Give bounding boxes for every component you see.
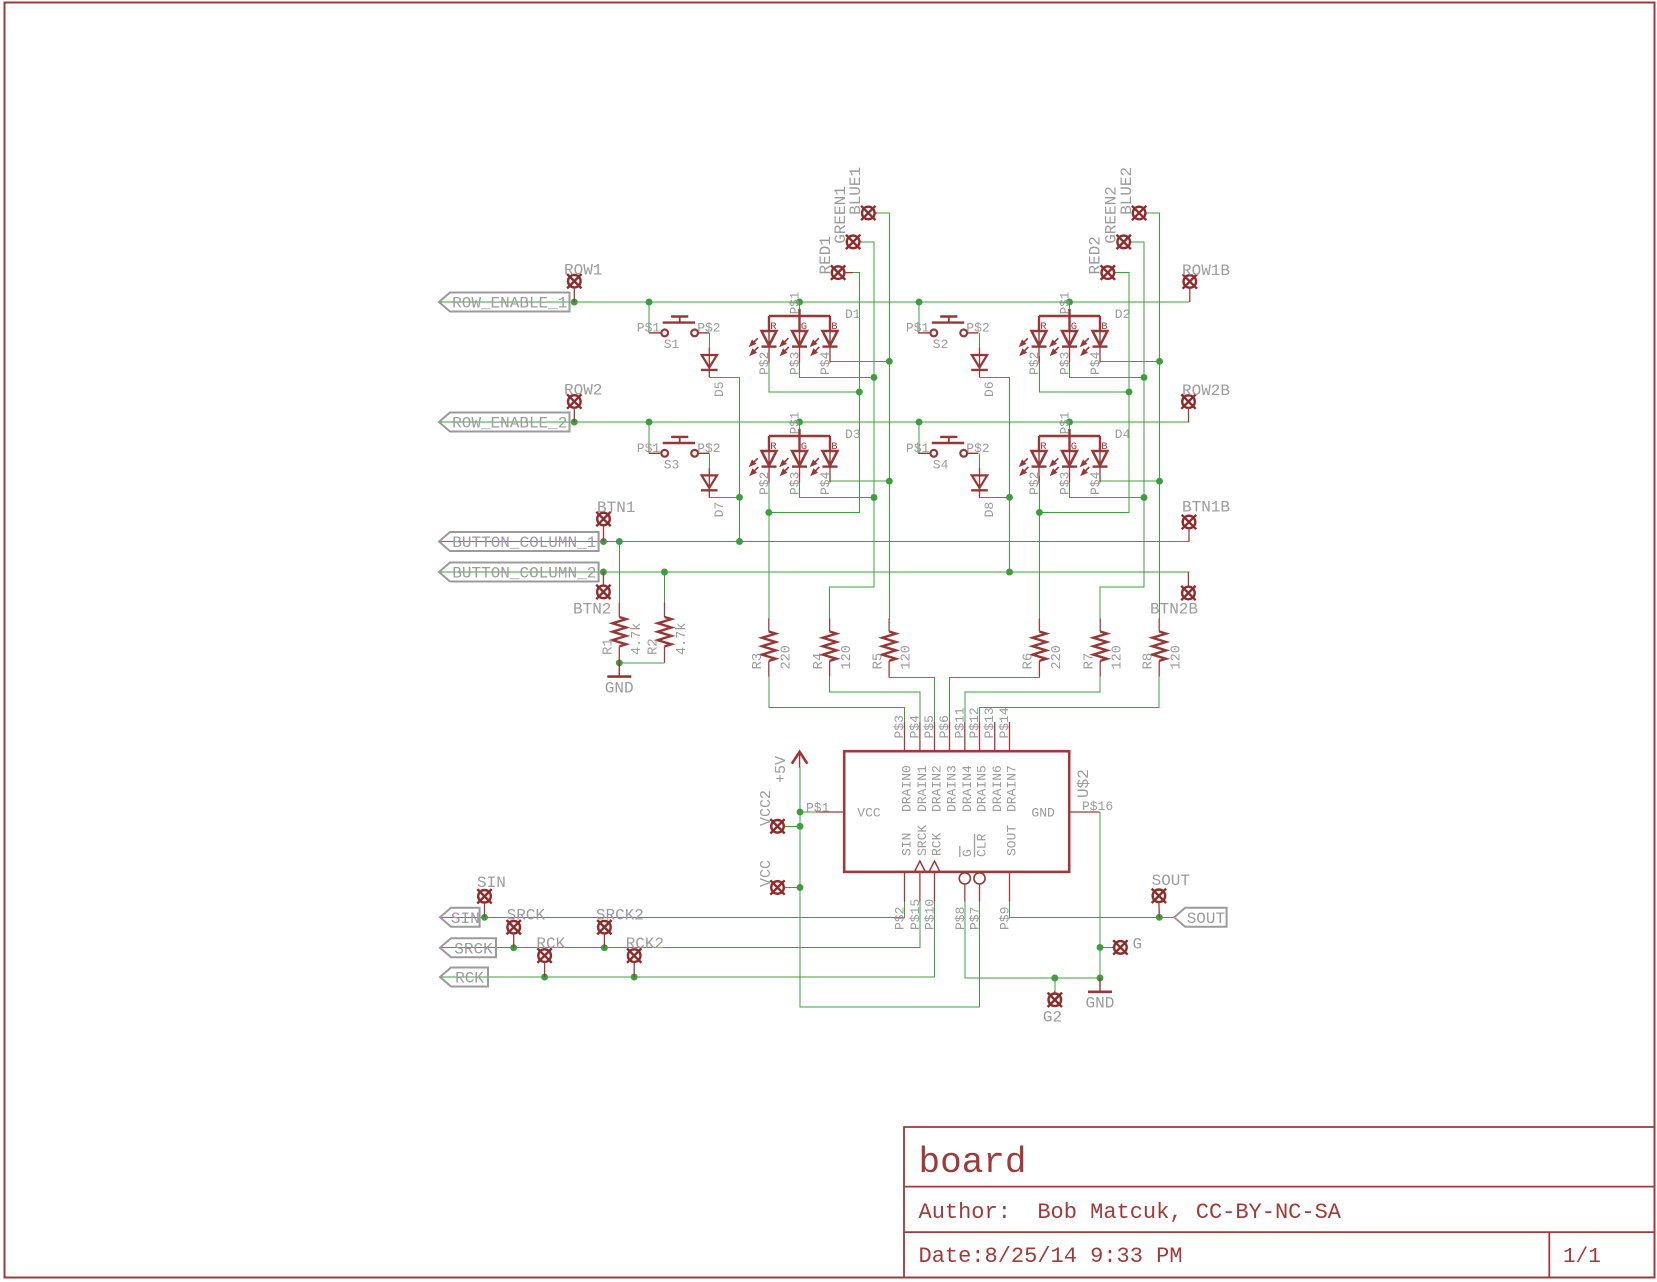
svg-text:ROW1B: ROW1B (1182, 262, 1230, 280)
svg-text:VCC: VCC (758, 860, 775, 887)
svg-text:U$2: U$2 (1075, 769, 1093, 798)
wire stub SRCK (513, 934, 515, 948)
junction D2/RE1 (1066, 299, 1073, 306)
svg-text:ROW1: ROW1 (564, 262, 602, 280)
svg-text:ROW_ENABLE_2: ROW_ENABLE_2 (452, 415, 567, 433)
junction RCK2 pad (631, 974, 638, 981)
svg-text:S3: S3 (664, 458, 680, 473)
svg-text:D3: D3 (845, 427, 861, 442)
svg-text:1/1: 1/1 (1563, 1246, 1601, 1269)
svg-text:P$1: P$1 (789, 412, 803, 435)
junction RED2/D2R (1126, 388, 1133, 395)
wire stub R6 top lead (1038, 618, 1040, 631)
pad G2 (1048, 993, 1062, 1007)
svg-text:P$2: P$2 (757, 472, 772, 495)
svg-text:G: G (960, 849, 975, 857)
svg-text:R3: R3 (750, 653, 766, 670)
pin P$6 (DRAIN3) (949, 722, 951, 751)
wire net BUTTON_COLUMN_2 (439, 571, 1189, 573)
wire stub RED2 (1114, 272, 1116, 274)
svg-text:Author: Bob Matcuk, CC-BY-NC-: Author: Bob Matcuk, CC-BY-NC-SA (919, 1200, 1342, 1225)
junction RED1/R3col (765, 509, 772, 516)
wire stub ROW1B (1189, 288, 1191, 302)
pad SRCK (507, 920, 521, 934)
LED R (762, 316, 777, 363)
svg-text:D1: D1 (845, 307, 861, 322)
RGB LED package D1 (769, 309, 830, 316)
svg-text:120: 120 (840, 645, 855, 669)
junction S2/RE1 (916, 299, 923, 306)
wire R8 to P$12 (980, 677, 1160, 722)
pin P$2 (SIN) (904, 872, 906, 902)
IC U$2 TPIC6B595 (844, 751, 1069, 872)
wire stub BTN1B (1188, 528, 1190, 541)
wire R3 to P$3 (769, 677, 905, 722)
ground symbol GND left (607, 663, 631, 677)
svg-text:D7: D7 (712, 502, 727, 518)
pad BTN1B (1182, 515, 1196, 529)
pin P$9 (SOUT) (1009, 872, 1011, 902)
net flag ROW_ENABLE_2 (439, 413, 570, 433)
svg-text:P$2: P$2 (1027, 352, 1042, 375)
svg-text:B: B (831, 321, 837, 333)
wire stub R8 top lead (1158, 618, 1160, 631)
svg-text:ROW_ENABLE_1: ROW_ENABLE_1 (452, 295, 567, 313)
pin P$5 (DRAIN2) (934, 722, 936, 751)
junction BLUE1/D1B (886, 358, 893, 365)
wire stub R6 bottom lead (1038, 661, 1040, 677)
junction ROW1/RE1 (571, 299, 578, 306)
svg-text:4.7k: 4.7k (675, 623, 690, 655)
wire net BLUE1 vertical to R5 (877, 213, 889, 618)
svg-text:G: G (801, 441, 807, 453)
svg-text:R: R (770, 321, 777, 333)
pad RCK2 (627, 948, 641, 962)
svg-text:B: B (1101, 441, 1107, 453)
svg-text:P$3: P$3 (1058, 352, 1073, 375)
junction R1/BC1 (616, 538, 623, 545)
svg-text:R: R (770, 441, 777, 453)
svg-text:VCC2: VCC2 (758, 790, 775, 826)
wire net ROW_ENABLE_1 (439, 301, 1190, 303)
LED B (823, 436, 838, 483)
svg-text:P$1: P$1 (806, 801, 830, 816)
ground symbol GND right (1088, 978, 1112, 992)
wire S4 branch (918, 422, 920, 453)
resistor R7 (1093, 632, 1107, 661)
wire S1 branch (648, 302, 650, 333)
svg-text:P$12: P$12 (967, 707, 982, 738)
junction RED2/R6col (1036, 509, 1043, 516)
RGB LED package D4 (1039, 429, 1100, 436)
resistor R5 (882, 632, 896, 661)
svg-text:P$8: P$8 (953, 907, 968, 930)
junction GREEN2/D4G (1141, 494, 1148, 501)
wire net RED2 vertical (1039, 273, 1129, 513)
junction SIN pad (481, 914, 488, 921)
svg-text:B: B (831, 441, 837, 453)
svg-text:220: 220 (1050, 645, 1065, 669)
pad VCC2 (770, 819, 784, 833)
resistor R2 (658, 617, 672, 646)
svg-text:P$2: P$2 (966, 320, 989, 335)
svg-text:G: G (1133, 936, 1143, 954)
switch S1 (649, 317, 709, 337)
wire D4 blue cathode (1100, 477, 1160, 482)
LED G (792, 436, 807, 483)
resistor R8 (1152, 632, 1166, 661)
wire S2 to D6 (979, 333, 981, 348)
svg-text:SRCK: SRCK (915, 825, 930, 856)
junction R2/BC2 (661, 569, 668, 576)
wire D1 red cathode (769, 356, 859, 392)
LED B (1093, 436, 1108, 483)
wire stub R8 bottom lead (1158, 661, 1160, 677)
wire D4 red cathode to R6 (1038, 477, 1040, 619)
svg-text:SOUT: SOUT (1005, 825, 1020, 856)
wire G pad wire (1100, 946, 1112, 948)
wire net VCC / CLR (800, 768, 980, 1008)
junction D8 out (1006, 494, 1013, 501)
diode D7 (701, 468, 718, 498)
LED R (762, 436, 777, 483)
svg-text:P$14: P$14 (997, 707, 1012, 738)
wire D1 blue cathode (830, 356, 889, 361)
junction BTN2/BC2 (600, 569, 607, 576)
wire stub R2 bottom lead (664, 646, 666, 662)
wire stub RED1 (844, 272, 853, 274)
switch S2 (918, 317, 978, 337)
wire BUTTON_COLUMN_2 to R2 (664, 572, 666, 603)
pad GREEN1 (846, 235, 860, 249)
svg-text:GND: GND (1031, 806, 1055, 821)
wire stub R2 top lead (664, 603, 666, 618)
wire stub R5 bottom lead (888, 661, 890, 677)
wire stub R4 top lead (829, 618, 831, 631)
svg-text:P$6: P$6 (937, 715, 952, 738)
wire D3 green cathode (800, 477, 875, 498)
resistor R4 (823, 632, 837, 661)
junction VCC (797, 884, 804, 891)
wire S3 branch (648, 422, 650, 453)
wire stub ROW1 (573, 288, 575, 303)
junction D7 out (736, 494, 743, 501)
pad BLUE1 (861, 206, 875, 220)
svg-text:R5: R5 (870, 653, 886, 670)
wire stub GREEN1 (859, 241, 861, 243)
wire stub BTN1 (603, 525, 605, 541)
svg-text:4.7k: 4.7k (630, 623, 645, 655)
wire S3 to D7 (708, 453, 710, 468)
junction P$1/VCC (797, 809, 804, 816)
svg-text:220: 220 (779, 645, 794, 669)
pad RED1 (831, 265, 845, 279)
svg-text:P$13: P$13 (982, 707, 997, 738)
junction D3/RE2 (796, 419, 803, 426)
wire stub R1 top lead (618, 603, 620, 618)
wire stub R1 bottom lead (618, 646, 620, 662)
junction S1/RE1 (646, 299, 653, 306)
wire stub SOUT (1158, 902, 1160, 917)
svg-text:RCK: RCK (455, 970, 484, 988)
wire D2 anode branch (1069, 302, 1071, 310)
svg-text:G: G (1071, 441, 1077, 453)
pad BTN1 (596, 512, 610, 526)
wire net GREEN1 vertical to R4 (830, 242, 874, 618)
wire stub SRCK2 (603, 934, 605, 948)
wire R6 to P$6 (950, 677, 1040, 722)
wire stub VCC2 (784, 825, 785, 827)
svg-text:S4: S4 (933, 458, 949, 473)
wire stub R7 bottom lead (1099, 661, 1101, 677)
pin P$14 (DRAIN7) (1009, 722, 1011, 751)
LED R (1032, 316, 1047, 363)
junction RCK pad (541, 974, 548, 981)
wire S4 to D8 (979, 453, 981, 468)
net flag BUTTON_COLUMN_1 (439, 532, 599, 552)
svg-text:R8: R8 (1140, 653, 1156, 670)
svg-text:P$2: P$2 (697, 320, 720, 335)
svg-text:P$4: P$4 (1088, 351, 1103, 375)
svg-text:+5V: +5V (773, 756, 790, 783)
wire net GREEN2 vertical to R7 (1100, 242, 1144, 618)
svg-text:P$7: P$7 (968, 907, 983, 930)
wire S2 branch (918, 302, 920, 333)
wire stub ROW2 (573, 408, 575, 422)
LED B (1093, 316, 1108, 363)
junction BTN1/BC1 (600, 538, 607, 545)
wire stub GREEN2 (1130, 241, 1132, 243)
svg-text:120: 120 (900, 645, 915, 669)
svg-text:SOUT: SOUT (1187, 910, 1225, 928)
svg-text:D5: D5 (712, 381, 727, 397)
svg-text:SOUT: SOUT (1152, 872, 1190, 890)
svg-text:DRAIN0: DRAIN0 (900, 765, 915, 812)
junction S3/RE2 (646, 419, 653, 426)
wire D3 red cathode to R3 (768, 477, 770, 619)
svg-text:board: board (919, 1142, 1027, 1183)
wire D1 green cathode (800, 356, 875, 377)
svg-text:G: G (1071, 321, 1077, 333)
diode D8 (971, 468, 988, 498)
svg-text:P$2: P$2 (893, 907, 908, 930)
svg-text:P$3: P$3 (788, 352, 803, 375)
wire net RCK (440, 902, 935, 977)
pad VCC (770, 880, 784, 894)
resistor R3 (762, 632, 776, 661)
svg-text:R7: R7 (1081, 653, 1097, 670)
svg-text:RCK: RCK (536, 935, 565, 953)
junction GND node (1097, 975, 1104, 982)
wire stub R7 top lead (1099, 618, 1101, 631)
wire S1 to D5 (708, 333, 710, 348)
pad ROW2 (567, 394, 581, 408)
pad RED2 (1101, 265, 1115, 279)
svg-text:DRAIN7: DRAIN7 (1005, 765, 1020, 812)
wire BUTTON_COLUMN_1 to R1 (618, 542, 620, 603)
wire net RED1 vertical (769, 273, 860, 513)
svg-text:P$3: P$3 (1058, 472, 1073, 495)
svg-text:P$11: P$11 (952, 707, 967, 738)
svg-text:Date:8/25/14 9:33 PM: Date:8/25/14 9:33 PM (919, 1244, 1183, 1269)
svg-text:R1: R1 (601, 638, 617, 655)
LED G (792, 316, 807, 363)
junction SRCK pad (510, 944, 517, 951)
svg-text:RCK2: RCK2 (626, 935, 664, 953)
pad SRCK2 (597, 920, 611, 934)
junction GREEN1/D1G (871, 374, 878, 381)
switch S3 (649, 437, 709, 457)
junction SOUT pad (1156, 914, 1163, 921)
svg-text:P$1: P$1 (789, 292, 803, 315)
svg-text:120: 120 (1170, 645, 1185, 669)
svg-text:SIN: SIN (477, 874, 506, 892)
wire stub RCK2 (633, 962, 635, 977)
wire D7 out (709, 496, 739, 498)
svg-text:P$2: P$2 (697, 441, 720, 456)
svg-text:GND: GND (605, 679, 634, 697)
svg-text:DRAIN3: DRAIN3 (945, 765, 960, 812)
junction BLUE2/D4B (1156, 478, 1163, 485)
net flag RCK (440, 968, 488, 988)
wire net BLUE2 vertical to R8 (1147, 213, 1159, 618)
pin P$11 (DRAIN4) (964, 722, 966, 751)
svg-text:S2: S2 (933, 337, 949, 352)
wire net BUTTON_COLUMN_1 (439, 541, 1190, 543)
svg-text:P$10: P$10 (923, 899, 938, 930)
svg-text:R2: R2 (646, 638, 662, 655)
svg-text:SIN: SIN (900, 833, 915, 856)
wire net SRCK (440, 902, 920, 948)
svg-text:S1: S1 (664, 337, 680, 352)
title block (904, 1127, 1655, 1278)
svg-text:SRCK: SRCK (507, 907, 546, 925)
svg-text:P$1: P$1 (637, 441, 661, 456)
junction BLUE1/D3B (886, 478, 893, 485)
junction GREEN1/D3G (871, 494, 878, 501)
+5V supply symbol (792, 752, 808, 768)
wire R5 to P$5 (889, 677, 934, 722)
wire D2 green cathode (1070, 356, 1144, 377)
junction D1/RE1 (796, 299, 803, 306)
svg-text:D2: D2 (1115, 307, 1131, 322)
wire D5 out to BUTTON_COLUMN_1 (709, 377, 739, 541)
svg-text:P$1: P$1 (637, 320, 661, 335)
svg-text:DRAIN6: DRAIN6 (990, 765, 1005, 812)
wire stub RCK (544, 962, 546, 977)
svg-text:P$2: P$2 (1027, 472, 1042, 495)
wire R7 to P$11 (965, 677, 1100, 722)
wire stub SIN (484, 903, 486, 918)
wire D2 blue cathode (1100, 356, 1160, 361)
wire G2 stem wire (1054, 978, 1056, 991)
junction BLUE2/D2B (1156, 358, 1163, 365)
switch S4 (918, 437, 978, 457)
svg-text:D4: D4 (1115, 427, 1131, 442)
wire stub ROW2B (1188, 408, 1190, 422)
pin P$13 (DRAIN6) (994, 722, 996, 751)
junction ROW2/RE2 (571, 419, 578, 426)
svg-text:P$1: P$1 (1059, 292, 1073, 315)
wire G pin to GND (965, 902, 1100, 978)
svg-text:P$4: P$4 (1088, 471, 1103, 495)
wire D3 blue cathode (830, 477, 889, 482)
svg-text:SRCK: SRCK (454, 940, 493, 958)
svg-text:P$1: P$1 (906, 320, 930, 335)
pad RCK (537, 948, 551, 962)
RGB LED package D3 (769, 429, 830, 436)
svg-text:P$3: P$3 (788, 472, 803, 495)
wire D2 red cathode (1039, 356, 1129, 392)
wire stub R5 top lead (888, 618, 890, 631)
junction D5D7/BC1 (736, 538, 743, 545)
wire VCC2 pad stub wire (785, 825, 800, 827)
svg-text:P$5: P$5 (922, 715, 937, 738)
wire D1 anode branch (799, 302, 801, 310)
svg-text:DRAIN1: DRAIN1 (915, 765, 930, 812)
wire stub R4 bottom lead (829, 661, 831, 677)
svg-text:P$2: P$2 (966, 441, 989, 456)
pad BLUE2 (1132, 206, 1146, 220)
wire R4 to P$4 (830, 677, 920, 722)
svg-text:D6: D6 (982, 381, 997, 397)
pad BTN2 (596, 585, 610, 599)
pad ROW2B (1181, 394, 1195, 408)
resistor R6 (1033, 632, 1047, 661)
svg-text:P$15: P$15 (908, 899, 923, 930)
wire P$1 wire (800, 811, 816, 813)
svg-text:DRAIN2: DRAIN2 (930, 765, 945, 812)
diode D6 (971, 348, 988, 378)
svg-text:BLUE2: BLUE2 (1118, 167, 1136, 215)
junction G2 (1051, 975, 1058, 982)
LED G (1062, 436, 1077, 483)
svg-text:D8: D8 (982, 502, 997, 518)
svg-text:P$2: P$2 (757, 352, 772, 375)
resistor R1 (612, 617, 626, 646)
LED B (823, 316, 838, 363)
svg-text:P$1: P$1 (1059, 412, 1073, 435)
wire stub G (1112, 946, 1114, 948)
svg-text:P$16: P$16 (1082, 799, 1113, 814)
wire D4 green cathode (1070, 477, 1144, 498)
svg-text:R4: R4 (811, 653, 827, 670)
junction S4/RE2 (916, 419, 923, 426)
wire D8 out (980, 496, 1010, 498)
pin P$10 (RCK) (934, 872, 936, 902)
wire stub R3 top lead (768, 618, 770, 631)
wire net ROW_ENABLE_2 (439, 421, 1190, 423)
svg-text:P$1: P$1 (906, 441, 930, 456)
svg-text:BLUE1: BLUE1 (847, 167, 865, 215)
junction RED1/D1R (856, 388, 863, 395)
junction VCC2 (797, 823, 804, 830)
svg-text:BTN2: BTN2 (573, 601, 611, 619)
junction SRCK2 pad (601, 944, 608, 951)
svg-text:G2: G2 (1043, 1008, 1062, 1026)
svg-text:VCC: VCC (857, 806, 881, 821)
wire stub G2 (1054, 991, 1056, 994)
pin P$16 (GND) (1069, 811, 1099, 813)
svg-text:R6: R6 (1021, 653, 1037, 670)
wire R2 bottom to GND node (619, 662, 664, 664)
svg-text:BUTTON_COLUMN_1: BUTTON_COLUMN_1 (452, 534, 596, 552)
pin P$3 (DRAIN0) (904, 722, 906, 751)
net flag BUTTON_COLUMN_2 (439, 563, 599, 583)
svg-text:ROW2: ROW2 (564, 382, 602, 400)
svg-text:BUTTON_COLUMN_2: BUTTON_COLUMN_2 (452, 565, 596, 583)
junction GREEN2/D2G (1141, 374, 1148, 381)
